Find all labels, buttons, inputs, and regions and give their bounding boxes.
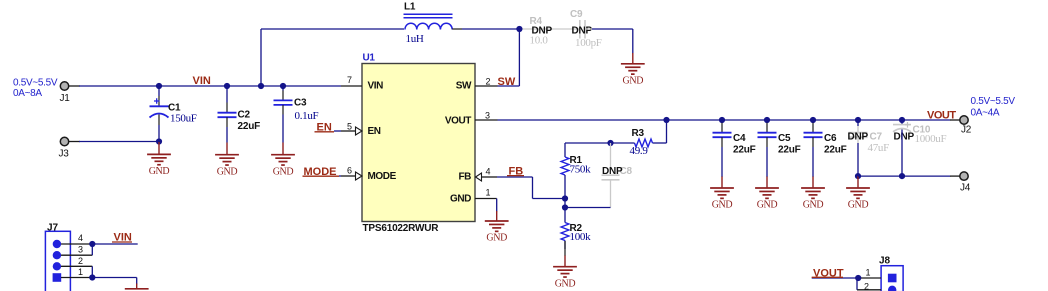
svg-text:GND: GND [848,200,869,211]
label C7 [848,132,890,155]
J7 pin 4 [61,233,92,244]
wire FB to divider [533,198,566,200]
svg-text:GND: GND [622,75,643,86]
wire R1 bottom lead [564,175,566,199]
wire U1 GND drop [496,199,498,212]
ground GND C1 [147,154,171,177]
svg-text:GND: GND [555,278,576,289]
capacitor C8 DNP [602,166,633,180]
net label FB [507,166,524,178]
wire VOUT rail [498,119,951,121]
connector J7 [45,223,70,291]
svg-text:SW: SW [498,76,516,88]
junction VOUT C5 [764,117,770,123]
svg-text:L1: L1 [404,2,416,13]
wire MODE stub [339,175,341,177]
svg-text:1: 1 [78,267,83,277]
svg-text:22uF: 22uF [238,121,261,132]
svg-text:4: 4 [486,167,491,177]
svg-text:47uF: 47uF [868,142,890,154]
U1 pin 5 EN [341,122,362,136]
junction VOUT R3 [663,117,669,123]
wire J2 stub [950,119,960,121]
capacitor C2 22uF [218,113,237,118]
wire C7 GND stem [857,176,859,188]
svg-text:VIN: VIN [193,75,211,87]
junction VOUT C7 [855,117,861,123]
ground GND U1 [485,221,509,244]
svg-text:FB: FB [458,171,471,182]
label R3 [630,128,649,157]
ground GND C2 [215,155,239,178]
wire top of R1 [565,142,611,144]
wire C8 top lead [610,143,612,170]
wire C2 top pin [226,103,228,113]
wire J7 VIN stub [92,243,137,245]
wire C9 right pin [585,28,592,30]
capacitor C7 DNP 47uF [849,133,868,138]
resistor R1 750k [561,157,569,175]
wire J7 GND drop [136,278,138,285]
svg-text:U1: U1 [363,53,376,64]
svg-text:J7: J7 [47,223,59,234]
IC U1 TPS61022RWUR body [362,53,475,235]
junction C8 top [607,140,613,146]
wire C2 bottom pin [226,117,228,127]
svg-text:C7: C7 [870,132,883,143]
wire C10 bottom lead [901,130,903,177]
capacitor C6 22uF [804,133,823,138]
resistor R4 DNP [523,16,580,47]
wire C2 GND stem [226,143,228,155]
wire L1 right pin [452,28,462,30]
J2 output rating label [971,96,1016,119]
svg-text:0.5V~5.5V: 0.5V~5.5V [13,78,58,89]
ground GND C3 [271,155,295,178]
wire C7 bottom pin [857,137,859,143]
wire J7 pin3-4 tie [91,244,93,255]
wire to L1 [261,28,404,30]
svg-text:750k: 750k [570,163,592,175]
svg-text:TPS61022RWUR: TPS61022RWUR [363,223,440,234]
svg-text:C6: C6 [824,133,837,144]
svg-text:0.5V~5.5V: 0.5V~5.5V [971,96,1016,107]
capacitor C5 22uF [758,133,777,138]
svg-text:100k: 100k [570,231,592,243]
svg-text:49.9: 49.9 [630,145,649,157]
wire J1 stub [69,85,80,87]
svg-text:22uF: 22uF [824,145,847,156]
label R2 [570,223,592,243]
svg-text:J4: J4 [960,183,971,194]
svg-text:GND: GND [273,166,294,177]
wire R3 riser [666,120,668,143]
wire R2 top lead [564,208,566,223]
net label VOUT at J8 [812,267,844,279]
net label MODE [303,166,340,178]
wire C5 top lead [766,120,768,123]
svg-text:GND: GND [450,193,471,204]
svg-text:6: 6 [347,166,352,176]
wire C7 to J4 rail [857,143,859,176]
wire C3 top pin [282,91,284,101]
label C6 [824,133,847,156]
svg-text:GND: GND [712,200,733,211]
label C2 [238,110,261,133]
J7 pin 3 [61,245,92,256]
svg-text:J8: J8 [879,256,891,267]
svg-text:C5: C5 [778,133,791,144]
wire FB drop [532,177,534,199]
wire EN stub [334,130,341,132]
junction J7 VIN [89,241,95,247]
svg-text:DNP: DNP [532,26,553,37]
wire FB horizontal [497,176,533,178]
wire C5 bottom pin [766,137,768,147]
wire J7 GND run [92,277,136,279]
connector J3 [59,137,70,159]
wire C3 bottom pin [282,105,284,115]
wire J4 rail [858,175,951,177]
svg-text:R3: R3 [632,128,645,139]
wire C3 GND stem [282,143,284,155]
wire J3 to C1 [79,141,159,143]
ground J7 [125,284,149,289]
svg-text:22uF: 22uF [733,145,756,156]
wire C6 bottom pin [812,137,814,147]
junction VOUT C4 [719,117,725,123]
ground GND C4 [710,188,734,211]
junction C10 J4 [899,173,905,179]
svg-text:J2: J2 [961,125,972,136]
wire C6 GND stem [812,177,814,189]
connector J4 [960,172,971,194]
svg-text:EN: EN [368,126,381,137]
wire C6 top lead [812,120,814,123]
wire VIN riser [260,29,262,86]
svg-text:7: 7 [347,75,352,85]
svg-text:100pF: 100pF [575,37,602,49]
ground GND C7 [846,188,870,211]
resistor R3 49.9 [635,139,653,147]
U1 pin 4 FB [476,167,498,182]
junction FB R1 [562,195,568,201]
wire C5 top pin [766,123,768,133]
wire GND drop [632,29,634,54]
J8 pin 2 [857,281,881,291]
svg-text:J3: J3 [59,149,70,160]
svg-text:1uH: 1uH [406,33,424,45]
wire J4 stub [950,175,960,177]
wire C10 top lead [901,120,903,125]
wire J8 VOUT run [812,277,859,279]
wire R2 GND stem [564,256,566,268]
connector J1 [60,82,71,104]
junction VOUT C6 [810,117,816,123]
wire FB node [564,199,566,208]
svg-text:1: 1 [486,188,491,198]
svg-text:4: 4 [78,233,83,243]
wire C6 to GND [812,147,814,177]
junction VIN C2 [224,83,230,89]
svg-text:3: 3 [485,111,490,121]
svg-text:C3: C3 [294,98,307,109]
svg-text:DNP: DNP [572,26,593,37]
svg-text:150uF: 150uF [170,113,197,125]
junction VOUT C10 [899,117,905,123]
wire C1 bottom pin [158,115,160,126]
svg-text:GND: GND [486,233,507,244]
J7 pin 1 [61,267,92,278]
wire C6 top pin [812,123,814,133]
capacitor C10 DNP 1000uF polarized [893,122,947,145]
ground GND C9 [621,64,645,87]
junction C7 GND [855,173,861,179]
wire C1 to GND [158,125,160,142]
svg-text:0.1uF: 0.1uF [295,110,319,122]
wire C4 top lead [721,120,723,123]
wire C4 GND stem [721,177,723,189]
junction C1 GND [156,138,162,144]
wire C1 GND stem [158,142,160,154]
junction R2 C8 [562,204,568,210]
svg-text:2: 2 [486,77,491,87]
ground GND C6 [801,188,825,211]
wire C2 to GND [226,127,228,143]
connector J2 [960,116,972,136]
net label EN [315,122,335,134]
U1 pin 3 VOUT [475,111,498,121]
label R1 [570,155,592,175]
svg-text:C2: C2 [238,110,251,121]
svg-text:SW: SW [456,80,472,91]
wire C9 to GND corner [592,28,633,30]
junction VIN C1 [156,83,162,89]
wire C5 to GND [766,147,768,177]
U1 pin 6 MODE [341,166,362,181]
wire J3 stub [69,141,80,143]
wire C2 top lead [226,86,228,103]
wire C9 GND stem [632,53,634,64]
svg-text:DNP: DNP [894,132,915,143]
wire C5 GND stem [766,177,768,189]
J1 input rating label [13,78,58,100]
svg-text:1: 1 [866,268,871,278]
U1 pin 2 SW [475,77,498,87]
label C5 [778,133,801,156]
inductor L1 1uH [404,2,453,46]
wire SW stub [498,85,520,87]
svg-text:J1: J1 [60,93,71,104]
svg-text:2: 2 [864,281,869,291]
U1 pin 7 VIN [341,75,362,86]
svg-text:5: 5 [347,122,352,132]
svg-text:3: 3 [78,245,83,255]
wire L1 to SW node [462,28,519,30]
wire C4 to GND [721,147,723,177]
wire C7 top lead [857,120,859,126]
label C3 [294,98,319,123]
capacitor C1 150uF polarized [150,98,197,124]
U1 pin 1 GND [475,188,497,199]
wire C1 top lead [158,86,160,96]
ground GND R2 [553,267,577,290]
wire C3 top lead [282,86,284,91]
resistor R2 100k [561,223,569,241]
wire R2 bottom pin [564,241,566,256]
svg-text:GND: GND [803,200,824,211]
junction J7 GND [89,274,95,280]
label C4 [733,133,756,156]
svg-text:1000uF: 1000uF [915,133,947,145]
wire VIN rail [79,85,341,87]
svg-text:0A~8A: 0A~8A [13,88,42,99]
wire C3 to GND [282,115,284,143]
wire C7 top pin [857,126,859,133]
svg-text:GND: GND [217,166,238,177]
wire C4 bottom pin [721,137,723,147]
svg-text:DNP: DNP [602,166,623,177]
wire R3 right lead [653,142,667,144]
svg-text:GND: GND [757,200,778,211]
junction VIN riser [258,83,264,89]
svg-text:GND: GND [149,166,170,177]
svg-text:C9: C9 [570,9,583,20]
svg-text:VIN: VIN [368,81,384,92]
wire R2 top to C8 [565,207,611,209]
wire R3 left lead [611,142,635,144]
J8 pin 1 [858,268,881,279]
wire C4 top pin [721,123,723,133]
svg-text:C4: C4 [733,133,746,144]
J7 pin 2 [61,256,92,266]
ground GND C5 [755,188,779,211]
net label VIN at J7 [112,232,132,244]
svg-text:22uF: 22uF [778,145,801,156]
svg-text:VOUT: VOUT [445,115,471,126]
wire R2 bottom lead [564,241,566,250]
svg-text:MODE: MODE [368,171,397,182]
wire J8 pin tie [856,278,858,290]
wire J7 pin1-2 tie [91,266,93,277]
junction SW node [516,26,522,32]
junction VIN C3 [280,83,286,89]
svg-text:0A~4A: 0A~4A [971,108,1000,119]
wire R1 top lead [564,143,566,157]
svg-text:2: 2 [78,256,83,266]
capacitor C4 22uF [713,133,732,138]
wire C1 top pin [158,96,160,106]
wire SW riser [518,29,520,86]
wire U1 GND stem [496,211,498,222]
capacitor C3 0.1uF [274,100,293,105]
wire C8 bottom lead [610,180,612,208]
capacitor C9 DNP 100pF [570,9,602,49]
junction J8 VOUT [855,275,861,281]
connector J8 [879,256,903,291]
